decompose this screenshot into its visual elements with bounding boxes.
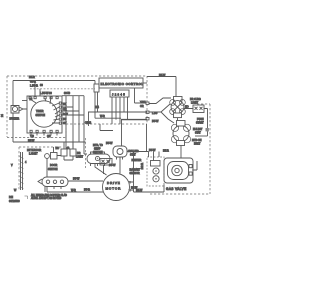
svg-text:OR: OR	[47, 135, 51, 138]
drive motor	[103, 174, 130, 201]
svg-text:BK-R: BK-R	[29, 76, 35, 79]
harness dashed run	[30, 88, 95, 90]
svg-text:BU-W: BU-W	[109, 164, 116, 167]
cabinet dashed left	[18, 147, 20, 190]
svg-text:OR-R: OR-R	[85, 122, 91, 125]
cabinet dashed top-right	[197, 103, 210, 105]
long drop x66	[65, 96, 67, 149]
wire motor feeds	[104, 157, 121, 174]
console edge terminals	[146, 102, 149, 104]
wire EC right drop	[135, 88, 147, 103]
console dashed boundary right	[146, 76, 148, 124]
wire fan to right	[149, 98, 174, 123]
svg-text:W-R: W-R	[71, 189, 76, 192]
gas valve coil box	[147, 157, 164, 186]
long drop x73	[72, 96, 74, 149]
svg-text:LIGHT: LIGHT	[76, 156, 84, 159]
wire bus above fuses	[62, 95, 84, 97]
svg-text:LIGHT: LIGHT	[191, 102, 199, 105]
connector J2	[110, 90, 129, 97]
svg-text:Y-R: Y-R	[30, 135, 34, 138]
console dashed boundary top	[7, 75, 147, 77]
connector J1	[94, 84, 99, 92]
svg-text:L.BU-R: L.BU-R	[30, 85, 38, 88]
wire drop to J1	[94, 81, 96, 85]
svg-text:24: 24	[1, 114, 4, 117]
svg-text:TH: TH	[29, 98, 32, 101]
cabinet dashed top-left	[19, 146, 62, 148]
svg-text:BK-W: BK-W	[159, 74, 166, 77]
cabinet dashed right	[209, 104, 211, 194]
svg-text:V: V	[11, 164, 13, 167]
note pointer	[44, 187, 46, 193]
buzzer	[11, 106, 19, 114]
svg-text:NC: NC	[56, 147, 60, 150]
timer box	[27, 96, 62, 133]
cabinet dashed divider	[85, 138, 87, 168]
svg-text:SWITCH: SWITCH	[36, 114, 46, 117]
motor right wires	[130, 181, 165, 192]
svg-text:ALUM. EXCEPT AS NOTED: ALUM. EXCEPT AS NOTED	[31, 197, 62, 200]
svg-text:BRKT: BRKT	[194, 143, 201, 146]
svg-text:W-R: W-R	[100, 115, 105, 118]
svg-text:SENSOR: SENSOR	[130, 172, 140, 175]
svg-text:L.BU: L.BU	[152, 112, 158, 115]
long drop x84	[84, 96, 87, 154]
svg-text:BK-W: BK-W	[136, 189, 143, 192]
svg-text:DOOR: DOOR	[50, 164, 57, 167]
wire BK-W top right	[147, 76, 176, 78]
timer cam lines	[30, 97, 59, 123]
wire drop to drum light	[175, 77, 177, 98]
wire buzzer down	[12, 113, 14, 142]
console dashed boundary bottom-mid	[66, 123, 147, 125]
drum light	[174, 97, 183, 102]
timer dial circle	[31, 101, 57, 127]
console dashed step	[65, 124, 67, 138]
push-to-start switch	[193, 105, 204, 113]
cabinet dashed bottom	[150, 193, 210, 195]
svg-text:4: 4	[25, 161, 27, 164]
wire EC right stub	[143, 82, 147, 84]
svg-text:BU-R: BU-R	[84, 189, 90, 192]
svg-text:W-BU: W-BU	[140, 163, 143, 170]
svg-text:MOTOR: MOTOR	[106, 187, 122, 191]
L wire	[100, 124, 113, 131]
svg-text:GAS VALVE: GAS VALVE	[166, 187, 187, 191]
svg-text:BK-R: BK-R	[163, 150, 169, 153]
timer terminals right	[59, 102, 61, 104]
drop x95	[95, 92, 98, 118]
svg-text:P/N: P/N	[9, 196, 13, 199]
svg-text:START: START	[196, 122, 204, 125]
wire mid y112	[88, 112, 147, 126]
motor terminal block	[100, 159, 112, 166]
wire top-left bus	[13, 80, 95, 82]
wire snap switch to motor	[95, 164, 107, 176]
wire motor right vertical	[133, 152, 135, 182]
svg-text:OR: OR	[140, 105, 144, 108]
wire mid y118	[95, 117, 121, 119]
console dashed boundary bottom-left	[7, 137, 66, 139]
wire lamp to hi-limit	[177, 118, 179, 121]
svg-text:ELECTRONIC CONTROL: ELECTRONIC CONTROL	[101, 82, 144, 86]
snap switch stadium	[87, 154, 110, 164]
wire door switch lower to motor	[47, 187, 103, 193]
twisted pair	[21, 152, 23, 190]
svg-text:DRIVE: DRIVE	[107, 181, 121, 185]
svg-text:IGNITER: IGNITER	[132, 159, 142, 162]
timer stubs to drops	[62, 103, 85, 115]
svg-text:H-4: H-4	[95, 106, 100, 109]
svg-text:63723580: 63723580	[9, 200, 20, 203]
svg-text:J 2 3 4 5: J 2 3 4 5	[112, 93, 125, 97]
console dashed boundary left	[6, 76, 8, 137]
wire door switch to motor	[68, 180, 103, 182]
svg-text:BK: BK	[63, 103, 67, 106]
svg-text:OR: OR	[63, 108, 67, 111]
svg-text:GY-R: GY-R	[30, 81, 36, 84]
wire thick y119.5	[121, 119, 147, 121]
timer left stub	[22, 100, 27, 102]
hi-limit stat	[173, 126, 189, 142]
connector drops	[112, 97, 128, 124]
svg-text:BK-W: BK-W	[28, 140, 35, 143]
svg-text:R-W: R-W	[63, 113, 69, 116]
timer bottom terminal ticks	[31, 133, 57, 136]
timer terminals bottom	[30, 130, 32, 132]
gas valve body	[164, 158, 193, 183]
svg-text:LIGHT: LIGHT	[29, 152, 38, 156]
svg-text:SWITCH: SWITCH	[48, 168, 58, 171]
svg-text:4A: 4A	[67, 147, 70, 150]
long drop x79	[78, 96, 80, 142]
svg-text:BU: BU	[63, 118, 67, 121]
svg-text:GY: GY	[63, 122, 67, 125]
svg-text:W: W	[14, 189, 17, 192]
timer terminals top	[29, 97, 31, 99]
svg-text:BU-W: BU-W	[73, 178, 80, 181]
cycling stat	[113, 146, 127, 157]
svg-text:30: 30	[40, 84, 43, 87]
svg-text:BU-W: BU-W	[152, 120, 159, 123]
wire BK-W left console	[13, 141, 86, 143]
valve feed wires	[127, 124, 159, 161]
svg-text:Y-BU: Y-BU	[140, 101, 146, 104]
wire drop timer top	[35, 81, 40, 97]
svg-text:BU-W: BU-W	[106, 142, 113, 145]
two small fuse blocks	[61, 149, 67, 156]
svg-text:INTERIOR: INTERIOR	[27, 148, 41, 152]
svg-text:L.BU-W 30: L.BU-W 30	[40, 92, 52, 95]
svg-text:SWITCH: SWITCH	[93, 151, 103, 154]
svg-text:30 50: 30 50	[64, 92, 71, 95]
electronic control box U1	[99, 78, 143, 88]
svg-text:BU-W: BU-W	[149, 149, 156, 152]
wire relay to valve	[180, 146, 182, 159]
svg-text:BUZZER: BUZZER	[10, 118, 20, 121]
svg-text:TIMER: TIMER	[36, 110, 44, 113]
svg-text:STAT: STAT	[195, 132, 201, 135]
wire drop to buzzer	[12, 81, 14, 106]
